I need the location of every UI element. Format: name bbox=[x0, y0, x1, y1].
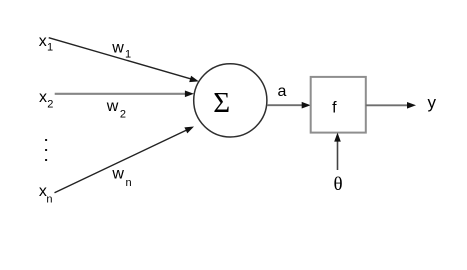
arrowhead output wire bbox=[407, 102, 416, 109]
arrowhead theta wire bbox=[334, 133, 341, 142]
svg-text:2: 2 bbox=[47, 98, 53, 110]
node x1 label bbox=[39, 33, 53, 53]
arrowhead xn wire bbox=[184, 127, 194, 134]
vertical ellipsis dots bbox=[45, 139, 47, 161]
wire theta to f box bbox=[337, 141, 339, 170]
weight wn label bbox=[111, 166, 131, 189]
svg-text:n: n bbox=[126, 177, 132, 189]
svg-text:1: 1 bbox=[47, 42, 53, 54]
wire xn to sum bbox=[55, 130, 187, 192]
activation function box f bbox=[311, 77, 366, 133]
svg-text:x: x bbox=[39, 33, 47, 50]
svg-text:2: 2 bbox=[120, 109, 126, 121]
weight w1 label bbox=[111, 39, 131, 60]
arrowhead a wire bbox=[302, 102, 311, 109]
wire sum to f box bbox=[267, 104, 302, 106]
wire x2 to sum bbox=[55, 93, 186, 95]
svg-text:θ: θ bbox=[333, 174, 342, 195]
arrowhead x2 wire bbox=[185, 91, 194, 98]
node xn label bbox=[39, 183, 53, 206]
svg-text:Σ: Σ bbox=[213, 87, 230, 119]
svg-text:x: x bbox=[39, 89, 47, 106]
svg-text:w: w bbox=[106, 98, 119, 115]
weight w2 label bbox=[106, 98, 126, 121]
summation unit circle bbox=[194, 64, 267, 137]
svg-text:w: w bbox=[111, 166, 124, 183]
svg-text:a: a bbox=[278, 83, 287, 100]
node x2 label bbox=[39, 89, 53, 110]
svg-text:n: n bbox=[46, 194, 52, 206]
svg-text:f: f bbox=[332, 100, 337, 117]
arrowhead x1 wire bbox=[189, 76, 199, 82]
wire x1 to sum bbox=[49, 38, 191, 79]
svg-text:1: 1 bbox=[125, 48, 131, 60]
wire f box to output y bbox=[366, 104, 408, 106]
svg-text:w: w bbox=[111, 39, 124, 56]
svg-text:y: y bbox=[428, 93, 437, 112]
